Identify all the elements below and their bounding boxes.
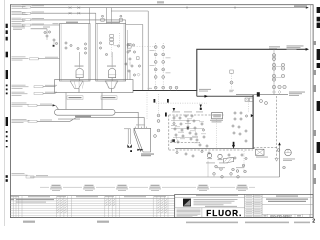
- line label group 8 (tank inlet lower): [12, 91, 25, 94]
- title block main dividers: [244, 194, 246, 217]
- drain symbol: [275, 158, 278, 161]
- revision table: [10, 196, 174, 218]
- line label group 12 (near table): [12, 172, 25, 175]
- line label group 4: [12, 22, 22, 25]
- black valve arrows at bin left: [127, 144, 129, 147]
- cluster right of column2: [127, 44, 129, 46]
- wire: bin feed line B: [37, 118, 144, 129]
- wire: drop at L3 end: [125, 20, 127, 24]
- bubbles right of package box: [234, 112, 236, 114]
- wire: drop from g4 to valve cluster: [46, 29, 48, 34]
- top zone tick: [157, 1, 164, 3]
- right margin zone labels: [314, 41, 316, 45]
- line label group 2: [12, 10, 22, 13]
- dotted vertical x244: [243, 151, 245, 171]
- FLUOR diamond logo: [183, 199, 191, 207]
- label right of y94.6: [289, 92, 305, 93]
- wire: top line L2: [31, 12, 96, 14]
- disclaimer paragraph: [177, 208, 201, 211]
- mid instrument column: [157, 114, 160, 117]
- tank drain lines into conveyor: [65, 93, 67, 110]
- company lines right of logo: [194, 198, 238, 201]
- slash marks in date cells: [57, 199, 59, 201]
- bubbles inside columns: [65, 42, 67, 44]
- funnel screen 2: [105, 81, 118, 89]
- dotted vertical from tank to bin: [146, 93, 148, 120]
- line label group 7 (tank inlet): [12, 84, 26, 87]
- left trim line: [4, 0, 6, 226]
- squares below y94.6 line: [245, 98, 248, 101]
- right side line y94.6: [236, 94, 288, 96]
- wire: drops from L1 to column2: [105, 8, 107, 24]
- arrow at L1 right end: [306, 6, 309, 8]
- issued-for text: [205, 205, 237, 208]
- steam block in package: [212, 113, 223, 119]
- pump A: [207, 153, 211, 157]
- middle grid rows: [245, 196, 262, 198]
- package boundary dashed box: [169, 114, 224, 116]
- line label group 10 (bin feed B): [12, 118, 27, 121]
- bin vessel (hopper): [134, 128, 151, 152]
- signal dotted y103: [156, 102, 207, 104]
- valve pair on L2: [69, 12, 72, 14]
- line label group 9 (bin feed A): [12, 102, 27, 105]
- tag blobs at column tops: [66, 22, 78, 23]
- bottom run line: [175, 148, 255, 150]
- inner right border line: [310, 5, 312, 218]
- labels on y103 line: [199, 89, 211, 90]
- small instrument box with signal line: [128, 44, 132, 49]
- wire: top line L3: [31, 19, 126, 21]
- black arrow on bottom run: [232, 145, 235, 149]
- right section: title text: [276, 195, 298, 198]
- wire: package internal headers: [171, 120, 200, 122]
- wire: drop L1 to column1: [89, 8, 91, 24]
- instruments on bottom utility line: [213, 173, 216, 176]
- main product line (thick): [133, 49, 308, 90]
- internal vessel in column 2: [109, 68, 116, 77]
- chain bubbles: [272, 54, 275, 57]
- bottom cells row: [262, 213, 313, 215]
- wire: elbow continuation down: [196, 91, 198, 97]
- valve pair on L1: [69, 7, 72, 9]
- title block frame: [175, 194, 314, 217]
- equipment title band with labels: [40, 186, 49, 188]
- top note row: [196, 194, 238, 197]
- instrument cluster A: [44, 31, 46, 33]
- wire: tank inlet 2: [43, 92, 56, 94]
- revision row 1 text: [16, 198, 54, 201]
- analyzer bubble: [285, 149, 292, 156]
- black drop arrow on y103: [200, 105, 202, 108]
- black inline valve arrow: [251, 114, 254, 117]
- svg-text:2: 2: [312, 219, 315, 225]
- labels above thick line right: [269, 46, 280, 47]
- svg-text:600-PID-68302: 600-PID-68302: [270, 214, 292, 218]
- wire: drop L2 to column2: [95, 13, 97, 23]
- internal vessel in column 1: [76, 68, 83, 77]
- thick vertical to package: [252, 95, 254, 149]
- right margin fold marks: [317, 7, 320, 13]
- wire: bin feed line A with arrow: [37, 104, 54, 106]
- line label group 1: [12, 4, 22, 7]
- ticks on L1 mid: [186, 7, 188, 9]
- tank tag 2: [101, 96, 117, 100]
- line label group 5: [12, 56, 26, 59]
- wire: top line L4: [31, 24, 60, 26]
- diamonds: [273, 91, 276, 94]
- funnel screen 1: [70, 81, 83, 89]
- bottom stamp text row: [186, 222, 238, 224]
- screw conveyor under tank (capsule): [55, 109, 116, 115]
- black valve on y94.6: [257, 92, 260, 96]
- line label group 3: [12, 17, 22, 20]
- bin tag: [141, 154, 154, 155]
- revision table header text: [28, 195, 50, 198]
- column C-68301A (tall vessel 1): [60, 24, 91, 82]
- left margin fold marks: [6, 24, 8, 28]
- wire: main top line L1: [31, 7, 308, 9]
- valve block at thick vertical end: [256, 149, 265, 155]
- wire: vertical pipe pair right of column2: [142, 25, 144, 91]
- wire: feed line into package y96.3: [197, 95, 253, 97]
- conveyor discharge to bin: [115, 112, 138, 128]
- L1 right end label: [294, 5, 307, 7]
- small labels above internal vessels: [75, 66, 84, 67]
- wire: g5 leader to column wall: [38, 58, 60, 60]
- below-package bubbles: [215, 165, 218, 168]
- sample cooler: [223, 157, 234, 163]
- bin side pipes: [127, 129, 129, 144]
- wire: g4 leader: [31, 28, 47, 30]
- instrument signal dotted verticals: [155, 43, 157, 91]
- discharge arrows under bin: [137, 149, 140, 151]
- tank T-68302: [55, 80, 134, 93]
- bubbles inside package box: [173, 117, 175, 119]
- svg-text:FLUOR.: FLUOR.: [206, 209, 242, 218]
- scale cells small text: [246, 215, 253, 218]
- pump B: [218, 154, 222, 158]
- bottom zone labels below border: [23, 221, 35, 223]
- wire: tank inlet 1: [43, 86, 56, 88]
- connective lines in package: [173, 119, 175, 122]
- signal drop from thick line: [273, 49, 275, 94]
- riser to analyzer with up arrow: [279, 144, 281, 178]
- tank tag 1: [67, 96, 83, 100]
- column C-68301B (tall vessel 2): [96, 24, 126, 82]
- bottom bubbles: [201, 150, 203, 152]
- valve blocks on L3: [101, 19, 104, 22]
- left cell divider: [175, 207, 245, 209]
